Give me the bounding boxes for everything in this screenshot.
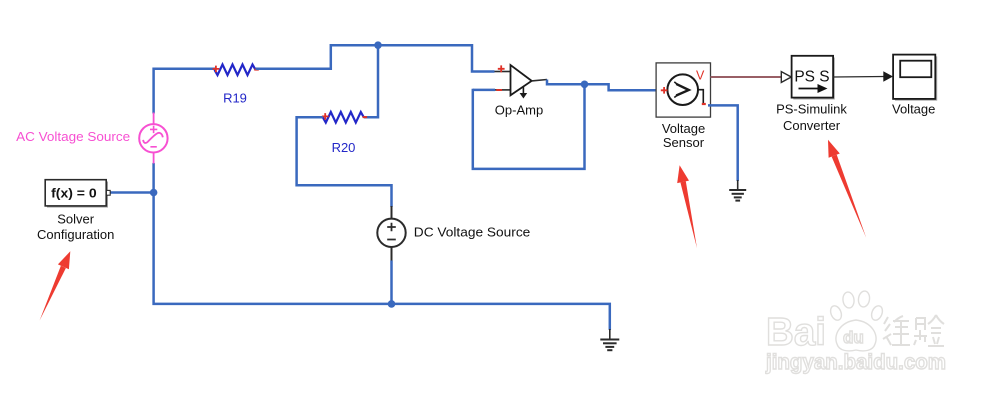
ground bottom symbol <box>600 340 619 351</box>
annotation red arrow 1 solver <box>40 251 71 320</box>
R20 plus mark <box>322 113 329 120</box>
svg-text:jingyan.baidu.com: jingyan.baidu.com <box>765 350 946 374</box>
op-amp U1 <box>495 65 548 99</box>
voltage sensor block <box>656 63 710 117</box>
svg-text:R19: R19 <box>223 91 247 106</box>
wire R20 to DC source top <box>297 117 392 207</box>
svg-text:R20: R20 <box>332 140 356 155</box>
op-amp minus mark <box>496 89 502 91</box>
voltage scope block <box>893 55 937 101</box>
ground bottom stub <box>609 329 611 340</box>
watermark baidu jingyan logo <box>765 290 946 374</box>
svg-text:f(x) = 0: f(x) = 0 <box>51 185 97 200</box>
DC voltage source circle <box>377 219 405 247</box>
wire AC source top to R19 <box>154 69 215 114</box>
annotation red arrow 3 converter <box>828 140 866 238</box>
node junction DC bottom <box>388 300 396 308</box>
annotation red arrow 2 sensor <box>677 165 697 248</box>
resistor R20 <box>323 112 364 123</box>
svg-text:Sensor: Sensor <box>663 135 705 150</box>
node junction solver <box>150 189 158 197</box>
wire R19 to top junction <box>256 45 495 71</box>
ground sensor symbol <box>729 190 746 201</box>
wire solver to junction <box>111 191 154 194</box>
wire op-amp minus input from feedback <box>473 89 495 92</box>
node junction top <box>374 41 382 49</box>
node junction output <box>581 81 589 89</box>
svg-text:DC Voltage Source: DC Voltage Source <box>414 225 531 240</box>
wire feedback loop <box>473 84 585 169</box>
solver configuration block <box>45 180 110 208</box>
resistor R19 <box>215 65 256 76</box>
AC voltage source <box>139 113 167 164</box>
svg-text:Voltage: Voltage <box>892 102 935 117</box>
DC source bottom stub <box>391 247 393 262</box>
svg-text:Voltage: Voltage <box>662 121 705 136</box>
DC source top stub <box>391 206 393 219</box>
sensor minus corner mark <box>702 103 706 105</box>
svg-text:AC Voltage Source: AC Voltage Source <box>16 130 130 144</box>
svg-text:Op-Amp: Op-Amp <box>495 102 543 117</box>
wire DC source to bottom bus <box>390 261 393 304</box>
svg-text:Solver: Solver <box>57 212 95 227</box>
op-amp plus mark <box>498 65 505 72</box>
scope input arrowhead <box>883 71 893 81</box>
svg-text:V: V <box>696 68 705 82</box>
sensor plus mark <box>661 87 668 94</box>
bottom bus wire <box>154 193 610 331</box>
svg-text:PS-Simulink: PS-Simulink <box>776 102 847 117</box>
PS-Simulink converter block <box>792 56 835 100</box>
ground sensor stub <box>737 180 739 190</box>
R20 minus mark <box>363 116 368 118</box>
svg-text:PS S: PS S <box>794 69 829 86</box>
svg-text:du: du <box>843 328 864 347</box>
R19 plus mark <box>213 66 220 73</box>
svg-text:Converter: Converter <box>783 118 841 133</box>
svg-text:Bai: Bai <box>766 311 826 354</box>
wire op-amp output to sensor <box>547 80 656 91</box>
physical signal line sensor to converter <box>711 76 782 78</box>
wire junction down to R20 <box>364 45 378 117</box>
wire converter to scope <box>833 76 884 79</box>
wire sensor bottom to ground <box>708 105 738 181</box>
wire AC source bottom down <box>152 163 155 193</box>
svg-text:Configuration: Configuration <box>37 227 114 242</box>
R19 minus mark <box>254 69 258 71</box>
converter input hollow arrow <box>781 72 791 83</box>
